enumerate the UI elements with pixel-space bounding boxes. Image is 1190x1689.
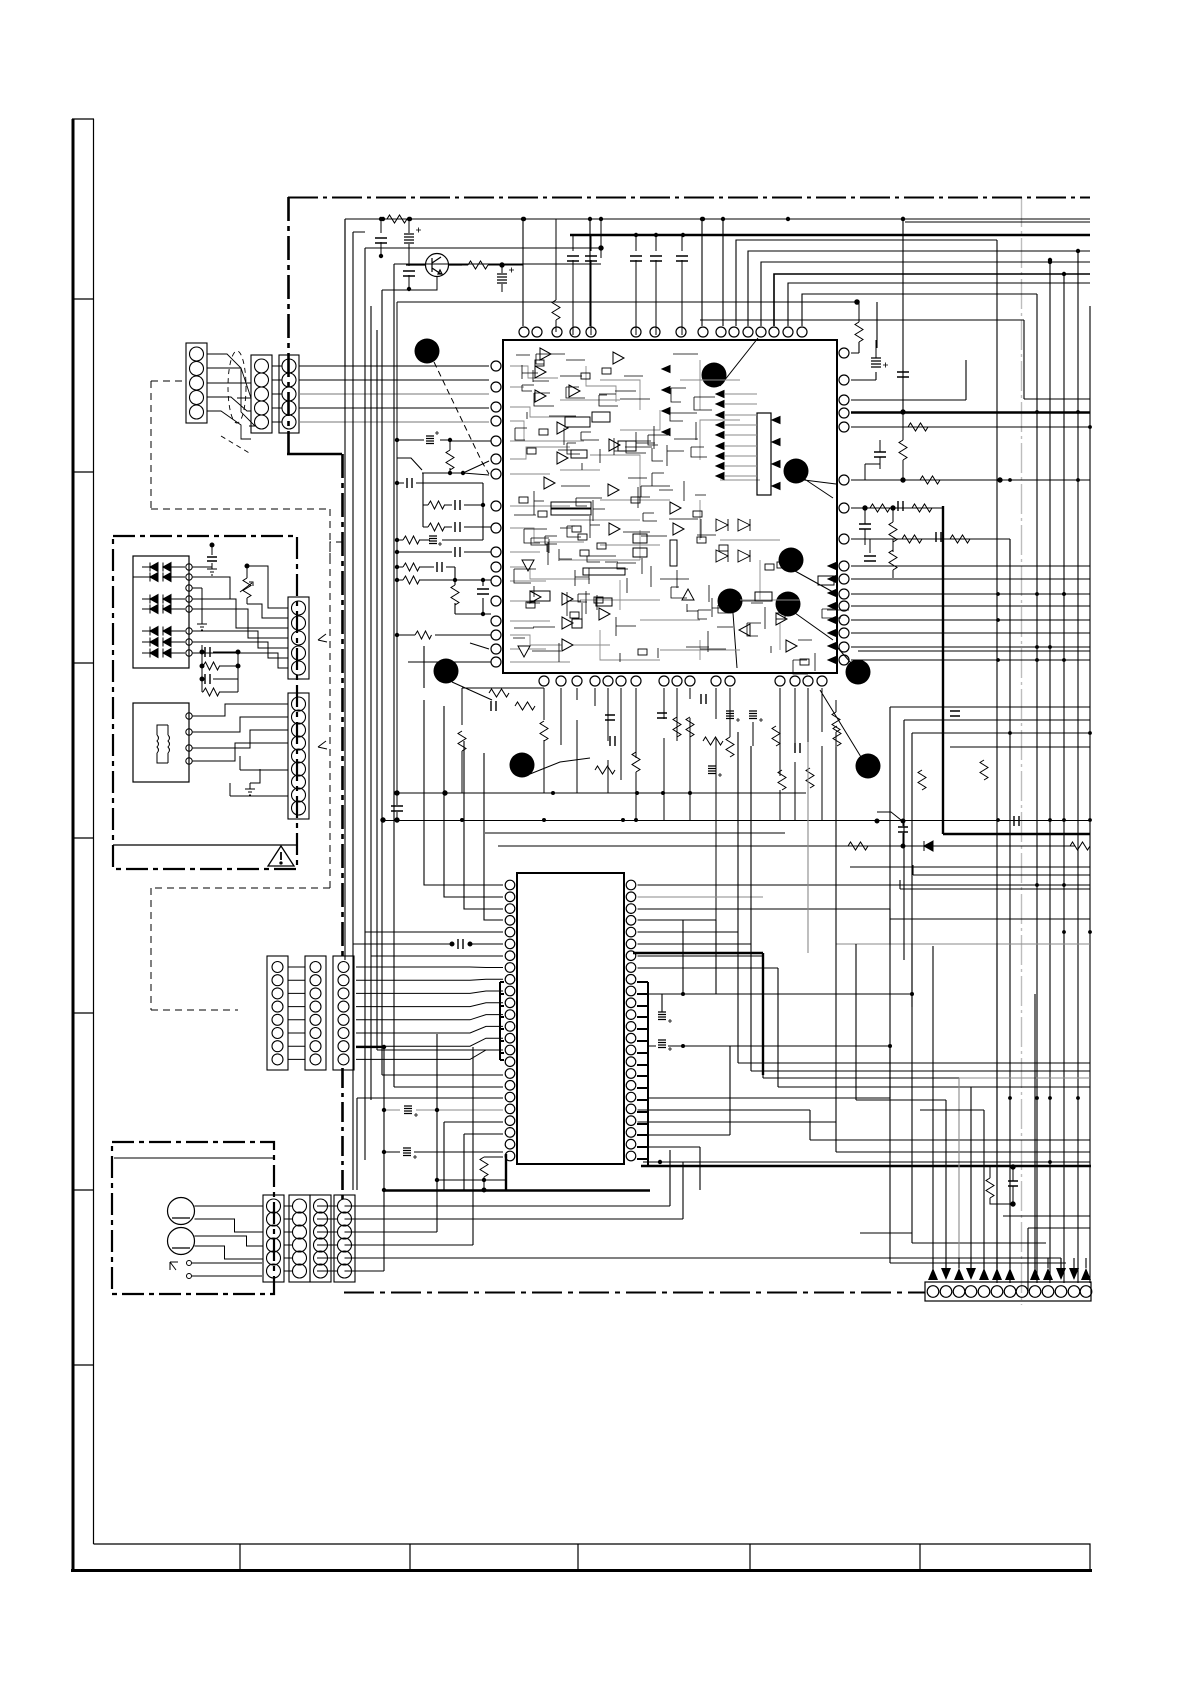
connector CN4 xyxy=(288,597,309,679)
jack J1 xyxy=(168,1198,195,1225)
capacitor C2 (elec) xyxy=(404,219,421,252)
diode block wiring xyxy=(133,545,288,668)
callout 5 xyxy=(718,589,743,614)
option box RC pairs xyxy=(200,647,240,696)
resistor R1 top xyxy=(387,215,407,223)
connector CN1 xyxy=(186,343,207,423)
callout 4 xyxy=(779,548,804,573)
band resistors xyxy=(458,689,988,790)
IC U2 pins xyxy=(505,880,636,1161)
ecap E11 xyxy=(403,1148,417,1159)
cap CR1 (elec) xyxy=(871,340,888,368)
connector CN9 xyxy=(263,1195,284,1282)
cable between CN1 and CN2 (dashed) xyxy=(207,351,255,454)
top bus wires xyxy=(345,219,1090,960)
transistor Q1 xyxy=(406,254,462,277)
U1 fine web xyxy=(513,354,849,674)
wire x903 top xyxy=(902,219,904,412)
CN11 fanout xyxy=(345,1034,1091,1271)
U2 left feed verticals xyxy=(353,700,503,1190)
mid-bottom verticals xyxy=(856,707,1090,1270)
IC U1 pins xyxy=(491,327,849,686)
U2 right wires xyxy=(638,732,1091,1190)
nested bus corners xyxy=(700,222,1090,399)
bus junction dots xyxy=(996,410,1092,1164)
diode block pads xyxy=(186,564,192,656)
band wires xyxy=(383,688,1090,920)
callout 7 xyxy=(434,659,459,684)
connector CN11 xyxy=(334,1195,355,1282)
callout 2 xyxy=(702,363,727,388)
thick wire x763 xyxy=(633,953,763,1075)
option box pot R50 xyxy=(240,564,253,604)
switch bend xyxy=(875,812,901,823)
resistor RR2 xyxy=(908,423,928,431)
option box ground G1 xyxy=(197,617,207,630)
junction dots U2 right xyxy=(681,992,914,1048)
IC U2 xyxy=(517,873,624,1164)
wire x856 xyxy=(855,944,857,1098)
res R41 on y846 xyxy=(848,842,868,850)
callout 3 xyxy=(784,459,809,484)
x384 dots xyxy=(382,1045,486,1192)
cap CR3 xyxy=(865,440,886,480)
callout 6 xyxy=(776,592,801,617)
ecap E10 xyxy=(404,1106,418,1117)
capacitor C1 xyxy=(375,219,387,256)
CN12 feed stubs xyxy=(933,1258,1086,1268)
connector CN10 (dual row) xyxy=(289,1195,331,1282)
thick bus y412 xyxy=(851,411,1090,414)
transistor base wire xyxy=(382,277,437,290)
junction dots top xyxy=(379,217,1052,291)
U1 internal opamps xyxy=(518,348,797,657)
left bus verticals xyxy=(345,219,601,1190)
dashed arrows xyxy=(318,634,327,749)
diode matrix block xyxy=(133,556,189,668)
wires CN3 to U1 xyxy=(299,366,489,422)
callout 1 xyxy=(415,339,440,364)
bundle T dots xyxy=(1048,249,1080,276)
U1 internal circuitry xyxy=(510,360,800,662)
fanout dots xyxy=(395,438,485,637)
resistor RR3 vert xyxy=(899,410,907,482)
U1 right arrow column xyxy=(662,366,836,664)
cap C30 xyxy=(1008,1165,1018,1206)
wires CN6-CN7 xyxy=(288,967,305,1059)
thick wire x943 xyxy=(943,506,1090,834)
connector CN2 xyxy=(251,355,272,433)
bottom connector CN12 xyxy=(925,1282,1092,1301)
long vertical x836 xyxy=(835,747,837,1122)
gray vertical x808 xyxy=(807,742,809,953)
option box dash-dot border xyxy=(113,536,297,869)
main IC U1 xyxy=(503,340,837,673)
res R20 vert xyxy=(480,1157,488,1192)
wires CN8 to U2 xyxy=(356,967,503,1059)
ecap E12 xyxy=(658,1012,672,1023)
option box cap C50 xyxy=(207,543,217,575)
dashed option boundary xyxy=(151,381,344,1010)
right vertical bundle xyxy=(997,240,1090,1283)
under-U1 component band xyxy=(544,688,822,780)
warning triangle xyxy=(268,846,294,866)
resistor R3 vertical xyxy=(552,219,560,332)
vertical feeds to U1 top pins xyxy=(523,219,723,326)
CN12 arrows xyxy=(928,1268,1091,1280)
transformer wiring xyxy=(192,704,288,796)
connector CN3 xyxy=(279,355,299,433)
thick bus y1190 xyxy=(383,1189,650,1192)
fold line xyxy=(1021,197,1023,1305)
U1 left pin fanout xyxy=(397,440,491,688)
wires CN9-CN11 xyxy=(284,1206,337,1271)
connector CN8 xyxy=(333,956,354,1070)
RC cluster y539 xyxy=(864,532,970,578)
U1 mos clusters xyxy=(716,519,750,562)
links CN2-CN3 xyxy=(272,366,282,422)
resistor RR1 xyxy=(855,302,863,342)
callout 9 xyxy=(510,753,535,778)
connector CN5 xyxy=(288,693,309,819)
vertical x384 xyxy=(356,1047,506,1271)
connector CN6 xyxy=(267,956,288,1070)
diodes xyxy=(142,563,185,658)
res R30 xyxy=(986,1167,1013,1204)
bottom-right h wires xyxy=(860,1216,1090,1291)
diode D2 on y846 xyxy=(924,841,933,851)
U1 tiny parts xyxy=(519,360,809,665)
option box bottom line xyxy=(113,844,297,846)
res R40 vert xyxy=(832,700,840,747)
ecap E13 xyxy=(658,1040,672,1051)
capacitor C3 xyxy=(403,252,415,289)
board boundary dash-dot xyxy=(287,197,1090,1293)
junction dots bus y219 xyxy=(381,217,905,237)
callout 10 xyxy=(856,754,881,779)
connector CN7 xyxy=(305,956,326,1070)
transformer T1 xyxy=(133,703,189,782)
page frame xyxy=(71,119,1092,1571)
fanout resistors xyxy=(403,190,466,639)
band caps xyxy=(491,694,960,777)
callout 8 xyxy=(846,660,871,685)
thick bus y1166 xyxy=(641,1165,1091,1168)
fanout caps xyxy=(407,431,489,594)
callout leaders xyxy=(434,338,861,774)
cap C10 series xyxy=(450,939,472,949)
wire y302 loop xyxy=(397,302,857,805)
CN11 dots xyxy=(658,1160,662,1164)
jack J2 xyxy=(168,1228,195,1255)
RC cluster y508 xyxy=(859,501,932,552)
IC U2 bus brackets xyxy=(500,982,648,1166)
U1 internal blocks xyxy=(530,412,834,628)
cap C43 xyxy=(381,791,447,822)
transformer pads xyxy=(186,713,192,764)
capacitor C4 (elec) xyxy=(497,263,514,292)
switch SW1 xyxy=(170,1261,262,1279)
wire x877 xyxy=(855,300,877,348)
right mid extra buses xyxy=(850,651,1090,960)
U1 right pin wires xyxy=(851,342,1090,660)
wire y248 xyxy=(365,219,603,258)
jack box top wire xyxy=(114,1157,274,1159)
cap C42 on y821 xyxy=(1014,816,1019,826)
cap C41 xyxy=(898,819,908,848)
resistor RR4 xyxy=(920,476,1002,484)
U1 arrow comb xyxy=(716,391,780,490)
band junction dots xyxy=(394,791,692,822)
cap CR2 xyxy=(897,340,909,412)
thick wire x506 xyxy=(505,1154,507,1190)
jack wires xyxy=(195,1206,263,1263)
resistor R2 xyxy=(462,261,523,269)
jack box dash-dot border xyxy=(112,1142,274,1294)
capacitor row above U1 xyxy=(567,235,688,335)
